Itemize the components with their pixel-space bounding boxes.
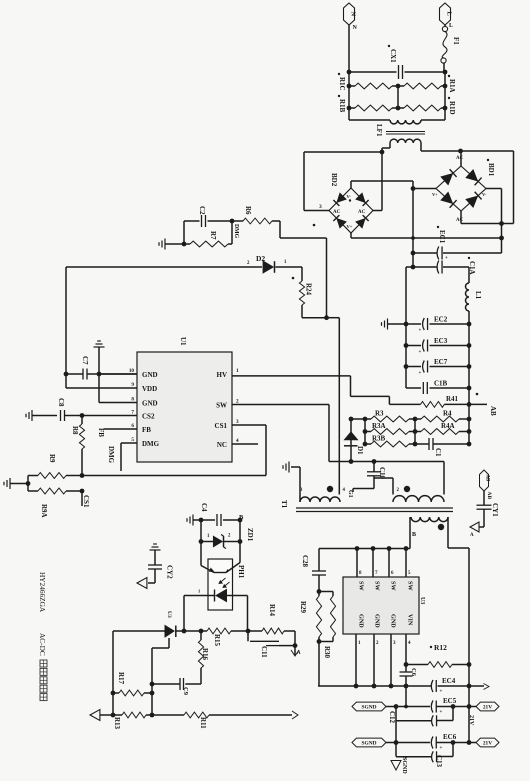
svg-text:1: 1 — [198, 589, 201, 594]
svg-text:C28: C28 — [301, 555, 309, 568]
svg-text:PH1: PH1 — [237, 565, 245, 579]
svg-text:CS2: CS2 — [142, 413, 155, 421]
svg-text:B: B — [412, 532, 416, 538]
svg-text:CY1: CY1 — [491, 503, 499, 517]
svg-text:EC1: EC1 — [438, 230, 446, 244]
svg-text:DMG: DMG — [107, 446, 115, 464]
svg-text:AB: AB — [484, 475, 489, 482]
svg-text:VDD: VDD — [142, 385, 157, 393]
svg-text:SW: SW — [390, 581, 397, 591]
svg-text:+: + — [440, 746, 443, 751]
svg-text:C1B: C1B — [434, 380, 448, 388]
svg-text:V+: V+ — [432, 192, 438, 197]
svg-text:SGND: SGND — [362, 705, 377, 711]
svg-text:SW: SW — [374, 581, 381, 591]
svg-text:HV: HV — [217, 371, 228, 379]
svg-text:C4: C4 — [200, 503, 208, 512]
svg-text:+: + — [440, 710, 443, 715]
svg-text:+: + — [445, 256, 448, 261]
svg-text:R13: R13 — [113, 717, 121, 730]
svg-text:C13: C13 — [435, 755, 443, 768]
svg-text:R15: R15 — [213, 634, 221, 647]
svg-text:AC-DC: AC-DC — [38, 633, 47, 656]
svg-text:+: + — [440, 690, 443, 695]
svg-text:SGND: SGND — [401, 757, 407, 774]
svg-text:2: 2 — [236, 399, 239, 405]
svg-text:R3A: R3A — [372, 422, 386, 430]
svg-text:AB: AB — [489, 406, 497, 416]
svg-text:DMG: DMG — [142, 440, 160, 448]
svg-text:AB: AB — [486, 492, 492, 500]
svg-text:R17: R17 — [117, 672, 125, 685]
svg-text:8: 8 — [131, 397, 134, 403]
svg-text:FB: FB — [142, 426, 151, 434]
svg-text:3: 3 — [319, 204, 322, 210]
svg-text:C6: C6 — [410, 668, 417, 677]
svg-text:ZD1: ZD1 — [246, 528, 254, 542]
svg-text:R1A: R1A — [448, 79, 456, 93]
svg-text:GND: GND — [374, 614, 381, 628]
svg-text:R4A: R4A — [441, 422, 455, 430]
svg-text:1: 1 — [236, 368, 239, 374]
svg-text:A: A — [297, 651, 301, 656]
svg-text:SW: SW — [407, 581, 414, 591]
svg-text:R4: R4 — [443, 410, 452, 418]
svg-text:U3: U3 — [419, 597, 425, 604]
svg-text:GND: GND — [142, 371, 158, 379]
svg-text:C10: C10 — [378, 467, 386, 480]
svg-text:2: 2 — [376, 641, 379, 646]
svg-text:SGND: SGND — [362, 741, 377, 747]
svg-text:EC5: EC5 — [443, 697, 457, 705]
svg-text:21V: 21V — [468, 715, 474, 726]
svg-text:R14: R14 — [268, 604, 276, 617]
svg-text:10: 10 — [129, 368, 135, 374]
svg-text:VIN: VIN — [407, 614, 414, 626]
svg-text:FB: FB — [97, 428, 105, 437]
svg-text:4: 4 — [408, 641, 411, 646]
svg-text:R24: R24 — [305, 283, 313, 296]
svg-text:5: 5 — [131, 437, 134, 443]
svg-text:GND: GND — [390, 614, 397, 628]
svg-text:EC6: EC6 — [443, 733, 457, 741]
svg-text:R1C: R1C — [338, 77, 346, 91]
svg-text:2: 2 — [247, 261, 250, 266]
svg-text:R11: R11 — [199, 717, 207, 729]
svg-text:+: + — [419, 350, 422, 355]
svg-text:CX1: CX1 — [389, 49, 397, 63]
svg-text:3: 3 — [393, 641, 396, 646]
svg-text:4: 4 — [236, 438, 239, 444]
svg-text:21V: 21V — [483, 705, 492, 711]
svg-text:C11: C11 — [260, 646, 268, 658]
svg-text:BD2: BD2 — [330, 173, 338, 187]
svg-text:F1: F1 — [452, 37, 460, 45]
svg-text:EC4: EC4 — [442, 677, 456, 685]
svg-text:R7: R7 — [209, 231, 217, 240]
svg-text:7: 7 — [131, 410, 134, 416]
svg-text:NC: NC — [217, 441, 227, 449]
svg-text:HY2466ZGA: HY2466ZGA — [38, 572, 47, 613]
svg-text:EC2: EC2 — [434, 316, 448, 324]
svg-text:AC: AC — [456, 156, 464, 161]
svg-text:1: 1 — [358, 641, 361, 646]
svg-text:21V: 21V — [483, 741, 492, 747]
svg-text:1: 1 — [284, 260, 287, 265]
svg-text:3: 3 — [236, 419, 239, 425]
svg-text:7: 7 — [375, 571, 378, 576]
svg-text:4: 4 — [343, 488, 346, 493]
svg-text:R30: R30 — [323, 646, 331, 659]
svg-text:6: 6 — [391, 571, 394, 576]
svg-text:D2: D2 — [256, 254, 265, 263]
svg-text:9: 9 — [131, 382, 134, 388]
svg-text:GND: GND — [142, 400, 158, 408]
svg-text:V-: V- — [347, 194, 352, 199]
svg-text:T1: T1 — [280, 500, 288, 509]
svg-text:G1: G1 — [347, 490, 353, 498]
svg-text:C7: C7 — [81, 356, 89, 365]
svg-text:L: L — [446, 12, 453, 16]
svg-text:2: 2 — [228, 534, 231, 539]
svg-text:A: A — [470, 533, 474, 538]
svg-text:C2: C2 — [198, 206, 206, 215]
svg-text:BD1: BD1 — [487, 163, 495, 177]
svg-text:5: 5 — [408, 571, 411, 576]
svg-text:R9A: R9A — [40, 504, 48, 518]
svg-text:C1: C1 — [434, 448, 442, 457]
svg-text:EC3: EC3 — [434, 337, 448, 345]
svg-text:B: B — [239, 514, 244, 521]
svg-text:R41: R41 — [446, 395, 459, 403]
svg-text:1: 1 — [207, 534, 210, 539]
svg-text:CS1: CS1 — [215, 422, 228, 430]
svg-text:R8: R8 — [71, 426, 79, 435]
svg-text:R29: R29 — [299, 601, 307, 614]
svg-text:CS1: CS1 — [82, 495, 90, 508]
svg-text:EC7: EC7 — [434, 358, 448, 366]
svg-text:L1: L1 — [474, 291, 482, 300]
svg-text:R16: R16 — [201, 648, 209, 661]
svg-text:AC: AC — [333, 210, 341, 215]
svg-text:U1: U1 — [179, 337, 187, 346]
svg-text:DMG: DMG — [233, 224, 239, 239]
svg-text:C12: C12 — [388, 711, 396, 724]
svg-text:R6: R6 — [244, 206, 252, 215]
svg-text:SW: SW — [216, 402, 227, 410]
svg-text:N: N — [350, 12, 357, 17]
svg-text:R3: R3 — [375, 410, 384, 418]
svg-text:C8: C8 — [57, 398, 65, 407]
svg-text:D1: D1 — [356, 446, 364, 455]
svg-text:2: 2 — [397, 488, 400, 493]
svg-text:U3: U3 — [166, 611, 172, 618]
svg-text:R1B: R1B — [338, 99, 346, 113]
svg-text:L: L — [449, 23, 453, 29]
svg-text:8: 8 — [359, 571, 362, 576]
svg-text:LF1: LF1 — [375, 124, 383, 137]
svg-text:AC: AC — [456, 218, 464, 223]
svg-text:R9: R9 — [48, 454, 56, 463]
svg-text:V-: V- — [482, 192, 487, 197]
svg-text:V+: V+ — [347, 224, 353, 229]
svg-text:AC: AC — [358, 210, 366, 215]
svg-text:CY2: CY2 — [166, 565, 174, 579]
svg-text:GND: GND — [358, 614, 365, 628]
svg-text:R1D: R1D — [448, 101, 456, 115]
svg-text:6: 6 — [131, 423, 134, 429]
svg-text:+: + — [419, 371, 422, 376]
svg-text:C9: C9 — [182, 687, 189, 696]
svg-text:R3B: R3B — [372, 435, 386, 443]
svg-text:+: + — [419, 329, 422, 334]
svg-text:SW: SW — [358, 581, 365, 591]
svg-text:R12: R12 — [434, 643, 447, 652]
svg-text:N: N — [353, 25, 358, 31]
